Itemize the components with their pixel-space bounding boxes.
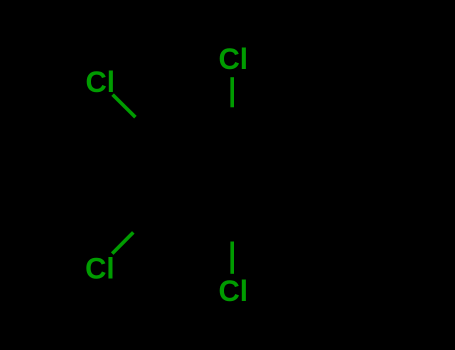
green heteroatom bonds bbox=[112, 77, 232, 274]
wire: black half of bond C2-Cl (bottom-left) bbox=[133, 210, 155, 232]
wire: ring bond C1-C2 (left edge) bbox=[155, 140, 157, 210]
bond Cl(bottom-center)-C3, green half bbox=[230, 242, 234, 274]
bond Cl(bottom-left)-C2, green half bbox=[112, 232, 133, 253]
bond Cl(top-left)-C1, green half bbox=[113, 95, 136, 118]
svg-text:Cl: Cl bbox=[219, 43, 249, 76]
wire: ring bond C3-C4 (right edge) bbox=[230, 137, 234, 211]
wire: ring bond C1-C4 (top edge) bbox=[157, 137, 232, 140]
svg-text:Cl: Cl bbox=[219, 275, 249, 308]
bond Cl(top-center)-C4, green half bbox=[230, 77, 234, 107]
wire: black half of bond C1-Cl (top-left) bbox=[135, 117, 157, 140]
wire: ring bond C2-C3 (bottom edge) bbox=[155, 210, 232, 211]
svg-text:Cl: Cl bbox=[86, 66, 116, 99]
svg-text:Cl: Cl bbox=[85, 252, 115, 285]
wire: black half of bond C3-Cl (bottom-center) bbox=[230, 211, 234, 241]
ring skeleton (black bonds, invisible on black background) bbox=[133, 107, 232, 241]
wire: black half of bond C4-Cl (top-center) bbox=[230, 107, 234, 137]
